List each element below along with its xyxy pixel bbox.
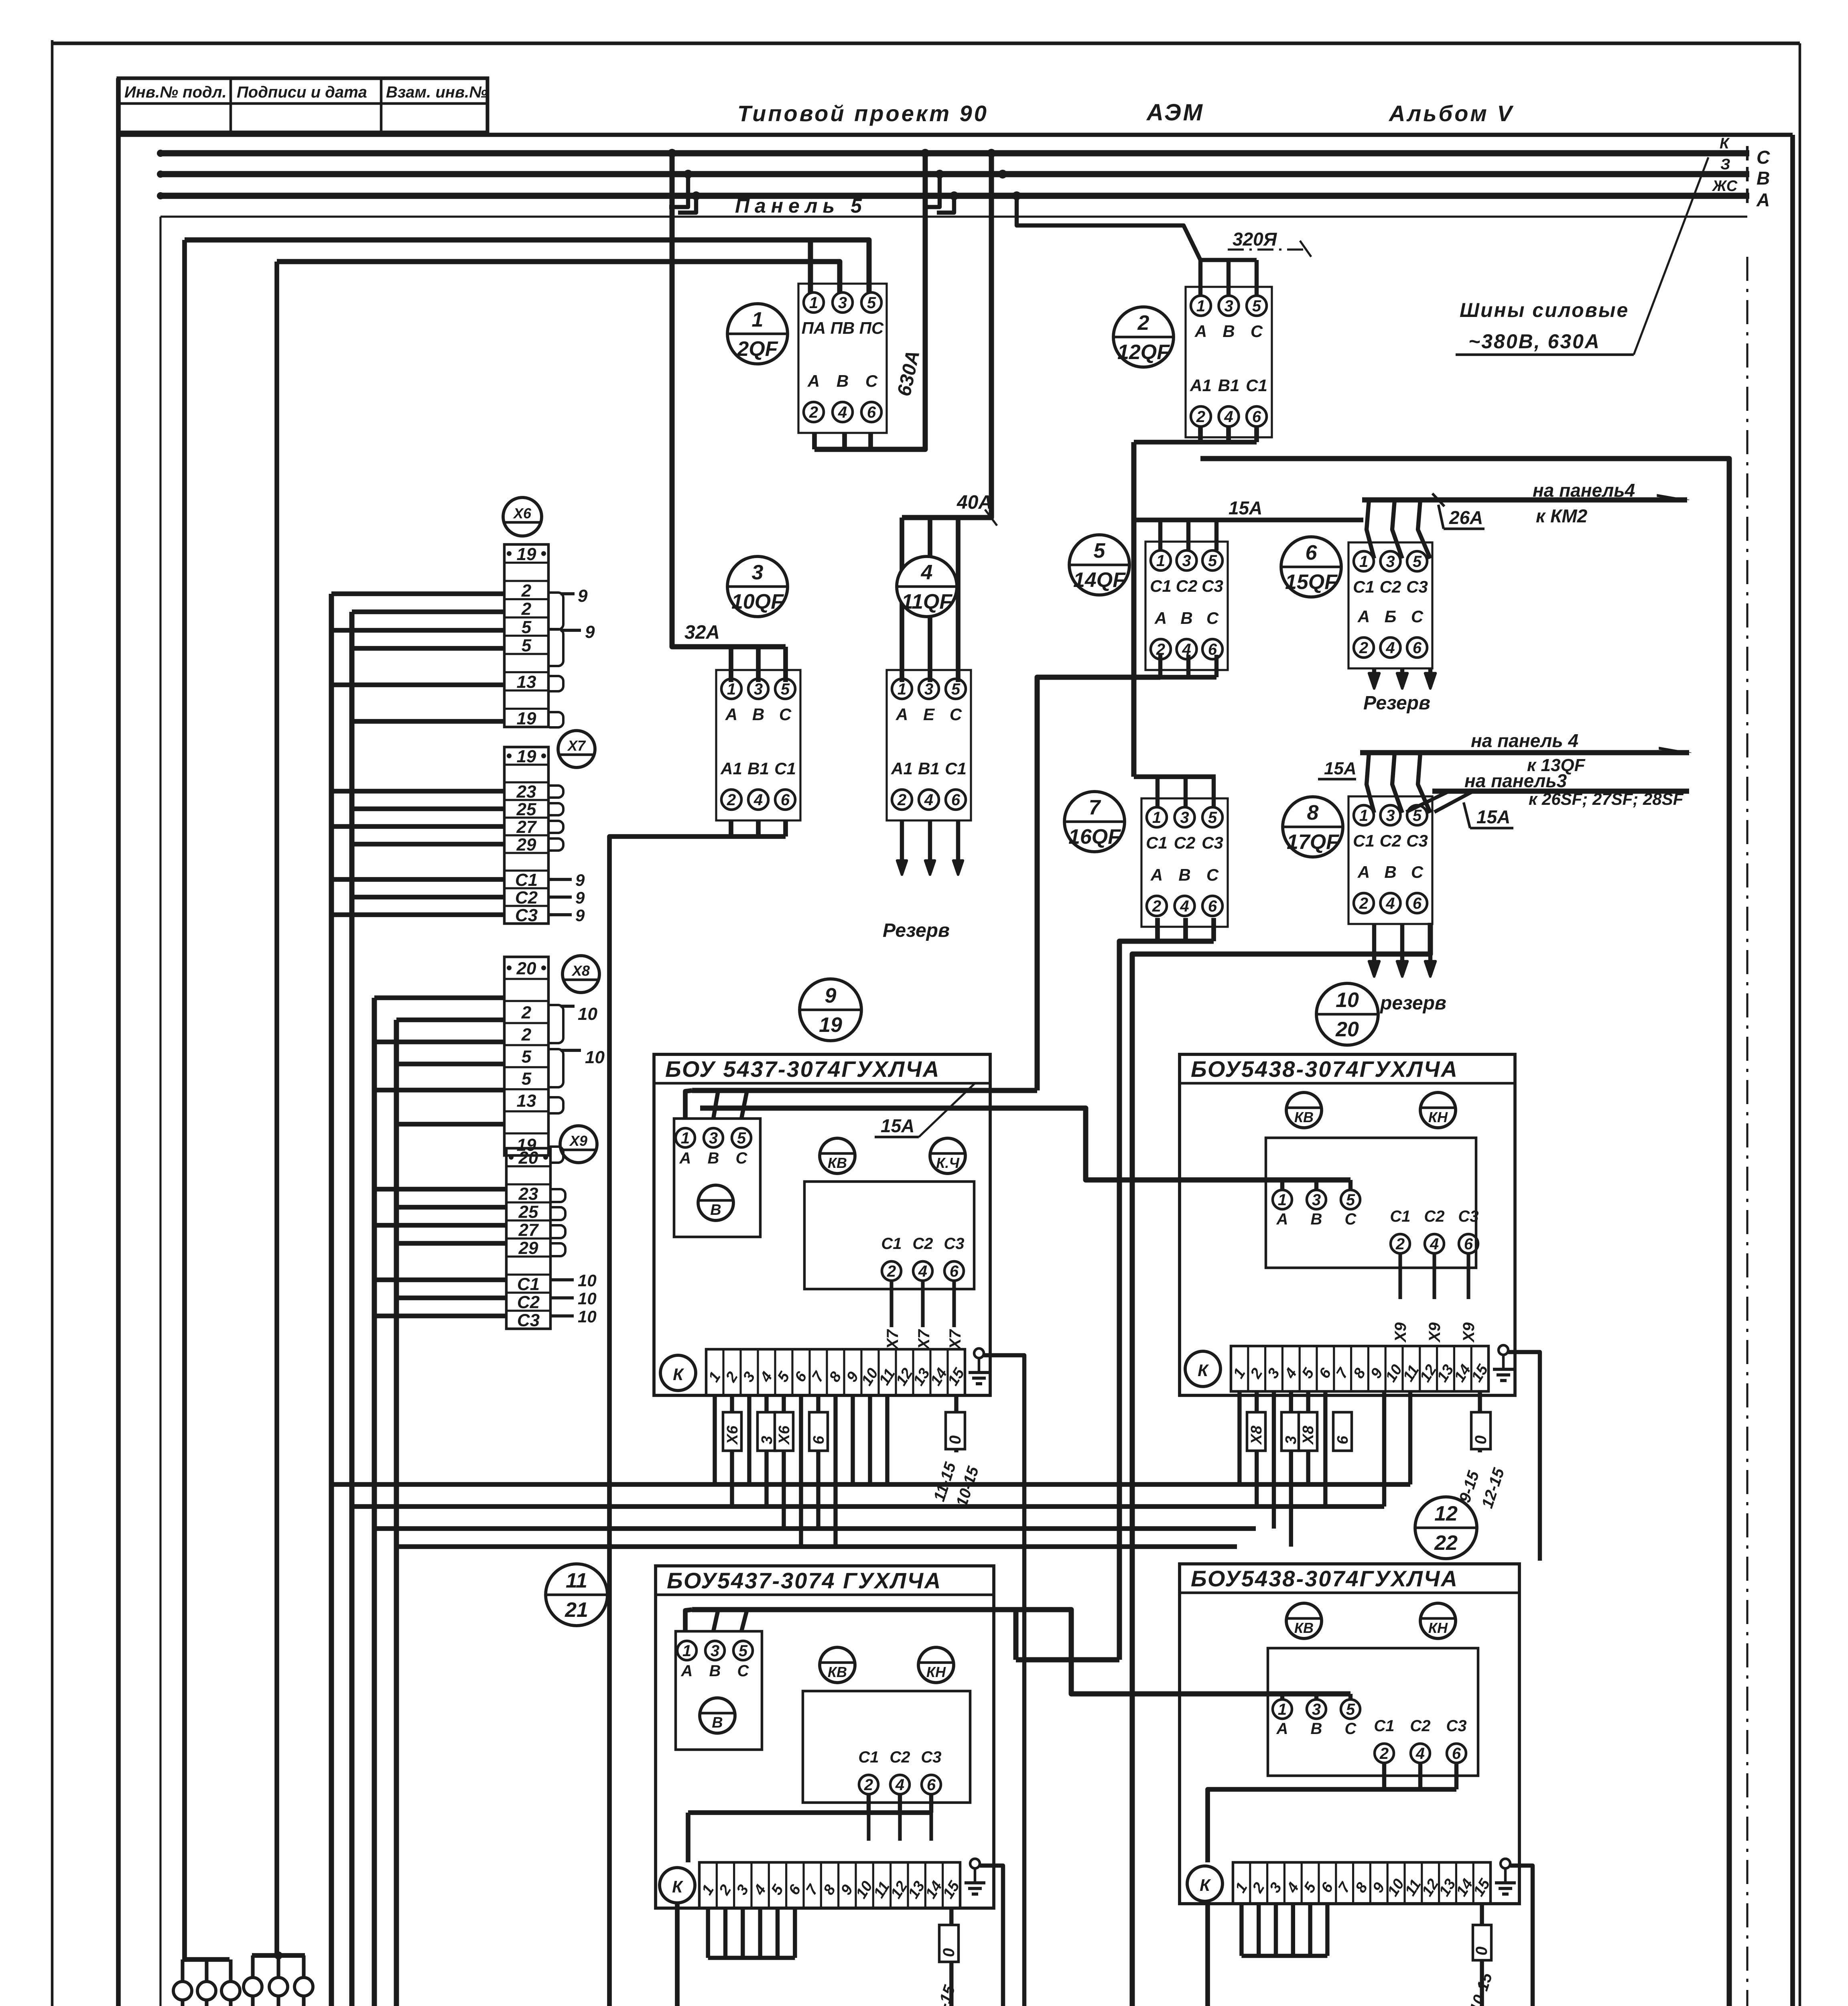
svg-text:10: 10	[578, 1289, 597, 1308]
svg-text:10: 10	[578, 1307, 597, 1326]
svg-text:Шины силовые: Шины силовые	[1460, 299, 1629, 321]
svg-text:К.Ч: К.Ч	[936, 1155, 960, 1171]
svg-text:5: 5	[522, 617, 532, 637]
svg-text:С3: С3	[1202, 577, 1223, 595]
svg-text:С1: С1	[858, 1748, 879, 1766]
svg-text:Е: Е	[923, 705, 935, 724]
svg-text:резерв: резерв	[1379, 993, 1446, 1014]
svg-text:Х7: Х7	[567, 737, 586, 754]
svg-text:А: А	[725, 705, 737, 724]
svg-text:КВ: КВ	[828, 1664, 847, 1680]
svg-text:11QF: 11QF	[902, 590, 952, 613]
svg-text:3: 3	[1386, 553, 1395, 571]
svg-text:В: В	[710, 1202, 721, 1218]
svg-text:4: 4	[838, 404, 847, 421]
svg-text:6: 6	[1464, 1235, 1473, 1253]
svg-text:КВ: КВ	[1294, 1620, 1314, 1636]
svg-text:5: 5	[867, 294, 876, 312]
svg-text:6: 6	[781, 791, 790, 809]
svg-text:С: С	[1251, 322, 1263, 341]
svg-text:С: С	[1206, 865, 1219, 884]
svg-text:С2: С2	[912, 1235, 933, 1253]
svg-text:Х9: Х9	[1460, 1322, 1478, 1343]
svg-text:С2: С2	[889, 1748, 910, 1766]
svg-text:ПВ: ПВ	[831, 319, 855, 337]
svg-text:1: 1	[1359, 553, 1368, 571]
svg-text:на панель3: на панель3	[1464, 770, 1567, 791]
svg-text:С1: С1	[1246, 376, 1267, 395]
svg-text:З: З	[1720, 156, 1730, 173]
svg-text:15А: 15А	[1229, 497, 1262, 518]
svg-text:20: 20	[1335, 1018, 1359, 1041]
svg-text:В: В	[708, 1149, 719, 1167]
svg-text:к КМ2: к КМ2	[1536, 506, 1588, 526]
svg-text:КН: КН	[1428, 1109, 1448, 1125]
svg-text:А: А	[1194, 322, 1207, 341]
svg-text:2: 2	[521, 1003, 532, 1023]
svg-text:В: В	[837, 372, 849, 390]
svg-text:19: 19	[517, 747, 536, 766]
svg-text:С: С	[1411, 607, 1424, 626]
svg-text:5: 5	[1208, 552, 1217, 570]
svg-text:6: 6	[927, 1776, 936, 1794]
svg-text:С2: С2	[515, 888, 538, 908]
svg-text:6: 6	[1452, 1745, 1461, 1762]
svg-text:С1: С1	[1374, 1717, 1394, 1735]
svg-text:12QF: 12QF	[1117, 341, 1170, 364]
svg-text:БОУ 5437-3074ГУХЛЧА: БОУ 5437-3074ГУХЛЧА	[665, 1056, 940, 1082]
svg-text:ПС: ПС	[859, 319, 884, 337]
svg-text:С3: С3	[1406, 831, 1428, 850]
svg-text:С3: С3	[921, 1748, 941, 1766]
svg-text:3: 3	[759, 1436, 776, 1444]
svg-text:21: 21	[565, 1598, 588, 1622]
svg-text:27: 27	[516, 817, 537, 837]
svg-text:С: С	[779, 705, 792, 724]
svg-text:2: 2	[1359, 895, 1368, 912]
svg-text:4: 4	[1385, 895, 1395, 912]
svg-text:~380В, 630А: ~380В, 630А	[1468, 330, 1600, 353]
svg-text:В: В	[1178, 865, 1190, 884]
svg-text:32А: 32А	[684, 622, 720, 643]
svg-text:5: 5	[1346, 1191, 1355, 1209]
svg-text:9: 9	[578, 586, 588, 606]
svg-text:9: 9	[585, 622, 595, 642]
svg-text:6: 6	[950, 1263, 959, 1280]
svg-text:4: 4	[918, 1263, 927, 1280]
svg-text:А: А	[1276, 1210, 1288, 1228]
svg-text:5: 5	[1094, 539, 1106, 562]
svg-text:В: В	[752, 705, 764, 724]
svg-text:19: 19	[517, 544, 536, 564]
svg-text:С1: С1	[774, 759, 796, 778]
svg-text:А1: А1	[1190, 376, 1212, 395]
svg-text:А: А	[679, 1149, 691, 1167]
svg-text:1: 1	[898, 680, 906, 698]
svg-text:7: 7	[1089, 796, 1101, 819]
svg-text:2: 2	[887, 1263, 896, 1280]
svg-text:С1: С1	[515, 870, 538, 890]
svg-text:1: 1	[1152, 809, 1161, 826]
svg-text:на панель 4: на панель 4	[1471, 730, 1578, 751]
svg-text:11: 11	[566, 1569, 587, 1592]
svg-text:17QF: 17QF	[1287, 830, 1339, 854]
svg-text:20: 20	[516, 959, 536, 979]
svg-text:19: 19	[517, 709, 536, 728]
svg-text:В: В	[1311, 1720, 1322, 1738]
svg-text:3: 3	[924, 680, 933, 698]
svg-text:С: С	[1757, 147, 1770, 168]
svg-text:2: 2	[864, 1776, 873, 1794]
svg-text:29: 29	[518, 1239, 538, 1258]
svg-text:6: 6	[867, 404, 876, 421]
svg-text:Х7: Х7	[884, 1329, 902, 1350]
svg-text:К: К	[672, 1877, 684, 1896]
svg-text:9: 9	[825, 984, 837, 1007]
svg-text:К: К	[673, 1365, 684, 1384]
svg-text:С2: С2	[1174, 833, 1196, 852]
svg-text:С2: С2	[1176, 577, 1198, 595]
svg-text:6: 6	[1252, 408, 1261, 426]
svg-text:1: 1	[1278, 1191, 1287, 1209]
svg-text:С2: С2	[1380, 577, 1401, 596]
svg-text:Панель 5: Панель 5	[735, 195, 867, 217]
svg-text:С3: С3	[1202, 833, 1223, 852]
svg-text:4: 4	[1430, 1235, 1439, 1253]
svg-text:КН: КН	[926, 1664, 946, 1680]
svg-text:Х9: Х9	[1392, 1322, 1409, 1343]
svg-text:С1: С1	[517, 1275, 540, 1294]
svg-text:3: 3	[709, 1129, 718, 1147]
svg-text:Х8: Х8	[1248, 1425, 1265, 1445]
svg-text:А1: А1	[891, 759, 913, 778]
svg-text:А: А	[1154, 609, 1167, 627]
svg-text:С1: С1	[881, 1235, 902, 1253]
svg-text:С1: С1	[945, 759, 967, 778]
svg-text:на панель4: на панель4	[1533, 480, 1635, 501]
svg-text:4: 4	[1224, 408, 1233, 426]
svg-text:3: 3	[1386, 807, 1395, 824]
svg-text:АЭМ: АЭМ	[1146, 99, 1204, 126]
svg-text:12: 12	[1434, 1502, 1458, 1525]
svg-text:А: А	[1756, 189, 1770, 210]
svg-text:10: 10	[585, 1048, 605, 1067]
svg-text:0: 0	[1473, 1947, 1491, 1955]
svg-text:2: 2	[1379, 1745, 1389, 1762]
svg-text:А: А	[896, 705, 908, 724]
svg-text:С: С	[1345, 1720, 1357, 1738]
svg-text:6: 6	[1413, 639, 1422, 657]
svg-text:15А: 15А	[1324, 759, 1357, 778]
svg-text:К: К	[1198, 1361, 1209, 1380]
svg-text:15А: 15А	[881, 1115, 914, 1136]
svg-text:1: 1	[682, 1642, 691, 1660]
svg-text:6: 6	[1208, 897, 1217, 915]
svg-text:2: 2	[809, 404, 818, 421]
svg-text:С3: С3	[944, 1235, 964, 1253]
svg-text:6: 6	[810, 1435, 827, 1444]
svg-text:23: 23	[518, 1184, 538, 1204]
svg-text:Альбом V: Альбом V	[1388, 101, 1514, 126]
svg-text:1: 1	[1196, 297, 1205, 315]
svg-text:5: 5	[1346, 1701, 1355, 1718]
svg-text:5: 5	[522, 636, 532, 655]
svg-text:С: С	[1345, 1210, 1357, 1228]
svg-text:3: 3	[1180, 809, 1189, 826]
svg-text:А1: А1	[720, 759, 742, 778]
svg-text:2: 2	[897, 791, 906, 809]
svg-text:5: 5	[737, 1129, 746, 1147]
svg-text:В: В	[1180, 609, 1192, 627]
svg-text:Х7: Х7	[946, 1329, 964, 1350]
svg-text:2: 2	[521, 581, 532, 601]
svg-text:2: 2	[1137, 311, 1149, 335]
svg-text:2QF: 2QF	[737, 337, 778, 361]
svg-text:С3: С3	[1446, 1717, 1466, 1735]
svg-text:2: 2	[1152, 897, 1161, 915]
svg-text:10: 10	[578, 1004, 597, 1024]
svg-text:4: 4	[895, 1776, 904, 1794]
svg-text:4: 4	[921, 561, 933, 584]
svg-text:6: 6	[1306, 541, 1318, 564]
svg-text:9: 9	[575, 871, 585, 889]
svg-text:4: 4	[1415, 1745, 1425, 1762]
svg-text:Х9: Х9	[1426, 1322, 1444, 1343]
svg-text:БОУ5438-3074ГУХЛЧА: БОУ5438-3074ГУХЛЧА	[1191, 1566, 1458, 1591]
svg-text:5: 5	[1413, 807, 1422, 824]
svg-text:3: 3	[1283, 1436, 1300, 1444]
svg-text:4: 4	[1385, 639, 1395, 657]
svg-text:13: 13	[517, 1091, 536, 1111]
svg-text:Х6: Х6	[513, 505, 532, 522]
svg-text:5: 5	[1252, 297, 1261, 315]
svg-text:Резерв: Резерв	[1363, 692, 1430, 714]
svg-text:20: 20	[518, 1148, 538, 1168]
svg-text:КВ: КВ	[828, 1155, 847, 1171]
svg-text:2: 2	[1359, 639, 1368, 657]
svg-text:3: 3	[752, 561, 764, 584]
svg-text:320Я: 320Я	[1233, 229, 1277, 250]
svg-text:КВ: КВ	[1294, 1109, 1314, 1125]
svg-text:4: 4	[753, 791, 763, 809]
svg-text:БОУ5438-3074ГУХЛЧА: БОУ5438-3074ГУХЛЧА	[1191, 1056, 1458, 1082]
svg-text:Инв.№ подл.: Инв.№ подл.	[124, 83, 227, 101]
svg-text:А: А	[1276, 1720, 1288, 1738]
svg-text:В1: В1	[918, 759, 940, 778]
svg-text:В: В	[1384, 863, 1396, 881]
svg-text:5: 5	[522, 1047, 532, 1067]
svg-text:0: 0	[946, 1435, 964, 1444]
svg-text:С3: С3	[515, 906, 538, 925]
svg-text:23: 23	[516, 782, 536, 802]
svg-text:В1: В1	[1218, 376, 1240, 395]
svg-text:В: В	[1223, 322, 1235, 341]
svg-text:15QF: 15QF	[1285, 571, 1338, 594]
svg-text:29: 29	[516, 835, 536, 855]
svg-text:1: 1	[1278, 1701, 1287, 1718]
svg-text:19: 19	[819, 1013, 842, 1037]
svg-text:Х7: Х7	[915, 1329, 933, 1350]
svg-text:3: 3	[838, 294, 847, 312]
svg-text:10QF: 10QF	[731, 590, 784, 613]
svg-text:2: 2	[727, 791, 736, 809]
svg-text:4: 4	[1180, 897, 1189, 915]
svg-text:2: 2	[521, 1025, 532, 1045]
svg-text:0: 0	[940, 1948, 958, 1957]
svg-text:1: 1	[681, 1129, 690, 1147]
svg-text:10: 10	[578, 1271, 597, 1290]
svg-text:10: 10	[1336, 989, 1359, 1012]
svg-text:40А: 40А	[956, 492, 992, 513]
svg-text:1: 1	[752, 308, 764, 331]
svg-text:5: 5	[1413, 553, 1422, 571]
svg-text:С: С	[737, 1662, 749, 1680]
svg-text:Х6: Х6	[776, 1425, 793, 1445]
svg-text:С: С	[865, 372, 878, 390]
svg-text:8: 8	[1307, 801, 1319, 824]
svg-text:3: 3	[1224, 297, 1233, 315]
svg-text:С: С	[736, 1149, 748, 1167]
svg-text:Типовой проект 90: Типовой проект 90	[737, 101, 989, 126]
svg-text:Взам. инв.№: Взам. инв.№	[386, 83, 487, 101]
svg-text:С1: С1	[1353, 577, 1375, 596]
svg-text:А: А	[1357, 863, 1370, 881]
svg-text:к 26SF; 27SF; 28SF: к 26SF; 27SF; 28SF	[1529, 790, 1684, 808]
svg-text:С1: С1	[1353, 831, 1375, 850]
svg-text:С2: С2	[1410, 1717, 1430, 1735]
svg-text:3: 3	[1312, 1701, 1321, 1718]
svg-text:ПА: ПА	[802, 319, 826, 337]
svg-text:2: 2	[1395, 1235, 1405, 1253]
svg-text:Х9: Х9	[569, 1133, 587, 1149]
svg-text:С2: С2	[517, 1293, 540, 1312]
svg-text:С: С	[1411, 863, 1424, 881]
svg-text:Подписи и дата: Подписи и дата	[237, 83, 367, 101]
svg-text:15А: 15А	[1476, 806, 1510, 827]
svg-text:А: А	[1357, 607, 1370, 626]
svg-text:В: В	[1311, 1210, 1322, 1228]
svg-text:27: 27	[518, 1220, 539, 1240]
svg-text:3: 3	[711, 1642, 719, 1660]
svg-text:14QF: 14QF	[1073, 569, 1126, 592]
svg-text:А: А	[681, 1662, 693, 1680]
svg-text:В: В	[709, 1662, 721, 1680]
svg-text:3: 3	[1312, 1191, 1321, 1209]
svg-text:5: 5	[739, 1642, 748, 1660]
svg-text:5: 5	[522, 1069, 532, 1089]
svg-text:А: А	[1150, 865, 1163, 884]
svg-text:В: В	[1757, 168, 1770, 189]
svg-text:Х8: Х8	[1300, 1425, 1317, 1445]
svg-text:С3: С3	[517, 1311, 540, 1330]
svg-text:1: 1	[727, 680, 736, 698]
svg-text:9: 9	[575, 906, 585, 925]
svg-text:26А: 26А	[1449, 507, 1483, 528]
svg-text:С: С	[1206, 609, 1219, 627]
svg-text:С1: С1	[1390, 1208, 1410, 1225]
svg-text:С2: С2	[1424, 1208, 1444, 1225]
svg-text:А: А	[807, 372, 820, 390]
svg-text:22: 22	[1434, 1531, 1458, 1555]
svg-text:С3: С3	[1458, 1208, 1478, 1225]
svg-text:КН: КН	[1428, 1620, 1448, 1636]
svg-text:Х6: Х6	[724, 1425, 741, 1445]
svg-text:6: 6	[951, 791, 961, 809]
svg-text:С1: С1	[1150, 577, 1172, 595]
svg-text:2: 2	[521, 599, 532, 619]
svg-text:5: 5	[781, 680, 790, 698]
svg-text:3: 3	[754, 680, 763, 698]
svg-text:С: С	[950, 705, 962, 724]
svg-text:16QF: 16QF	[1068, 825, 1121, 849]
svg-text:ЖС: ЖС	[1712, 178, 1738, 195]
svg-text:0: 0	[1472, 1435, 1490, 1444]
svg-text:Х8: Х8	[571, 962, 590, 979]
svg-text:13: 13	[517, 672, 536, 692]
svg-text:БОУ5437-3074 ГУХЛЧА: БОУ5437-3074 ГУХЛЧА	[667, 1568, 942, 1593]
svg-text:К: К	[1720, 135, 1730, 152]
svg-text:Резерв: Резерв	[883, 920, 950, 941]
svg-text:С1: С1	[1146, 833, 1168, 852]
svg-text:1: 1	[1359, 807, 1368, 824]
svg-text:6: 6	[1334, 1435, 1351, 1444]
svg-text:25: 25	[516, 800, 536, 819]
svg-text:5: 5	[951, 680, 961, 698]
svg-text:В1: В1	[747, 759, 769, 778]
svg-text:С3: С3	[1406, 577, 1428, 596]
svg-text:25: 25	[518, 1202, 538, 1222]
svg-text:3: 3	[1182, 552, 1191, 570]
svg-text:1: 1	[809, 294, 818, 312]
svg-text:В: В	[712, 1714, 723, 1731]
svg-text:9: 9	[575, 888, 585, 907]
svg-text:1: 1	[1156, 552, 1165, 570]
svg-text:Б: Б	[1385, 607, 1397, 626]
svg-text:6: 6	[1413, 895, 1422, 912]
svg-text:К: К	[1200, 1876, 1211, 1894]
svg-text:С2: С2	[1380, 831, 1401, 850]
svg-text:5: 5	[1208, 809, 1217, 826]
svg-text:2: 2	[1196, 408, 1205, 426]
svg-text:4: 4	[924, 791, 933, 809]
